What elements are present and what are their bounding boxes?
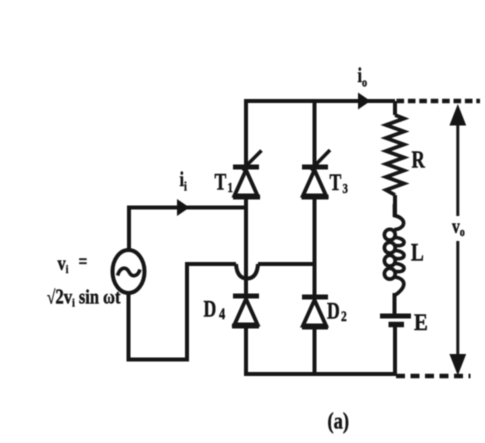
thyristor T1: [233, 151, 262, 198]
inductor L coil: [384, 204, 404, 300]
dashed line bottom right: [396, 374, 471, 379]
wire load leg stub L-E: [393, 293, 397, 314]
wire left leg middle: [244, 197, 248, 296]
svg-text:R: R: [412, 146, 426, 173]
svg-text:T3: T3: [330, 171, 348, 196]
wire left leg upper: [244, 99, 248, 167]
wire right leg middle: [313, 197, 317, 297]
svg-text:(a): (a): [328, 408, 350, 435]
v_o measure line: [449, 104, 466, 376]
wire mid to right leg: [258, 262, 316, 266]
wire right leg upper: [313, 101, 317, 167]
wire source input top: [129, 208, 246, 250]
svg-text:T1: T1: [215, 170, 233, 195]
wire load leg stub R-L: [393, 195, 397, 215]
svg-text:L: L: [411, 238, 424, 266]
wire left leg lower: [244, 325, 248, 376]
current arrow i_i: [177, 199, 190, 216]
svg-text:√2vi sin ωt: √2vi sin ωt: [47, 286, 121, 310]
svg-text:vi=: vi=: [58, 250, 88, 276]
diode D4: [232, 296, 259, 326]
wire load leg stub top: [393, 101, 397, 115]
svg-text:ii: ii: [180, 168, 188, 194]
resistor R zigzag: [386, 115, 404, 195]
svg-text:D4: D4: [204, 297, 226, 323]
wire source input bottom: [129, 264, 237, 360]
svg-text:D2: D2: [327, 299, 347, 324]
svg-text:io: io: [358, 64, 368, 90]
battery E: [380, 316, 411, 325]
wire right leg lower: [313, 326, 317, 376]
wire top rail: [244, 99, 395, 103]
svg-text:E: E: [414, 310, 428, 335]
current arrow i_o: [358, 93, 371, 110]
thyristor T3: [302, 150, 331, 197]
ac source V1 circle: [113, 250, 145, 293]
label v_o: [447, 216, 469, 241]
dashed line top right: [397, 99, 481, 104]
diode D2: [302, 297, 328, 327]
wire load leg stub E-rail: [393, 326, 397, 376]
wire hop crossing: [236, 264, 258, 279]
wire bottom rail: [244, 372, 397, 376]
